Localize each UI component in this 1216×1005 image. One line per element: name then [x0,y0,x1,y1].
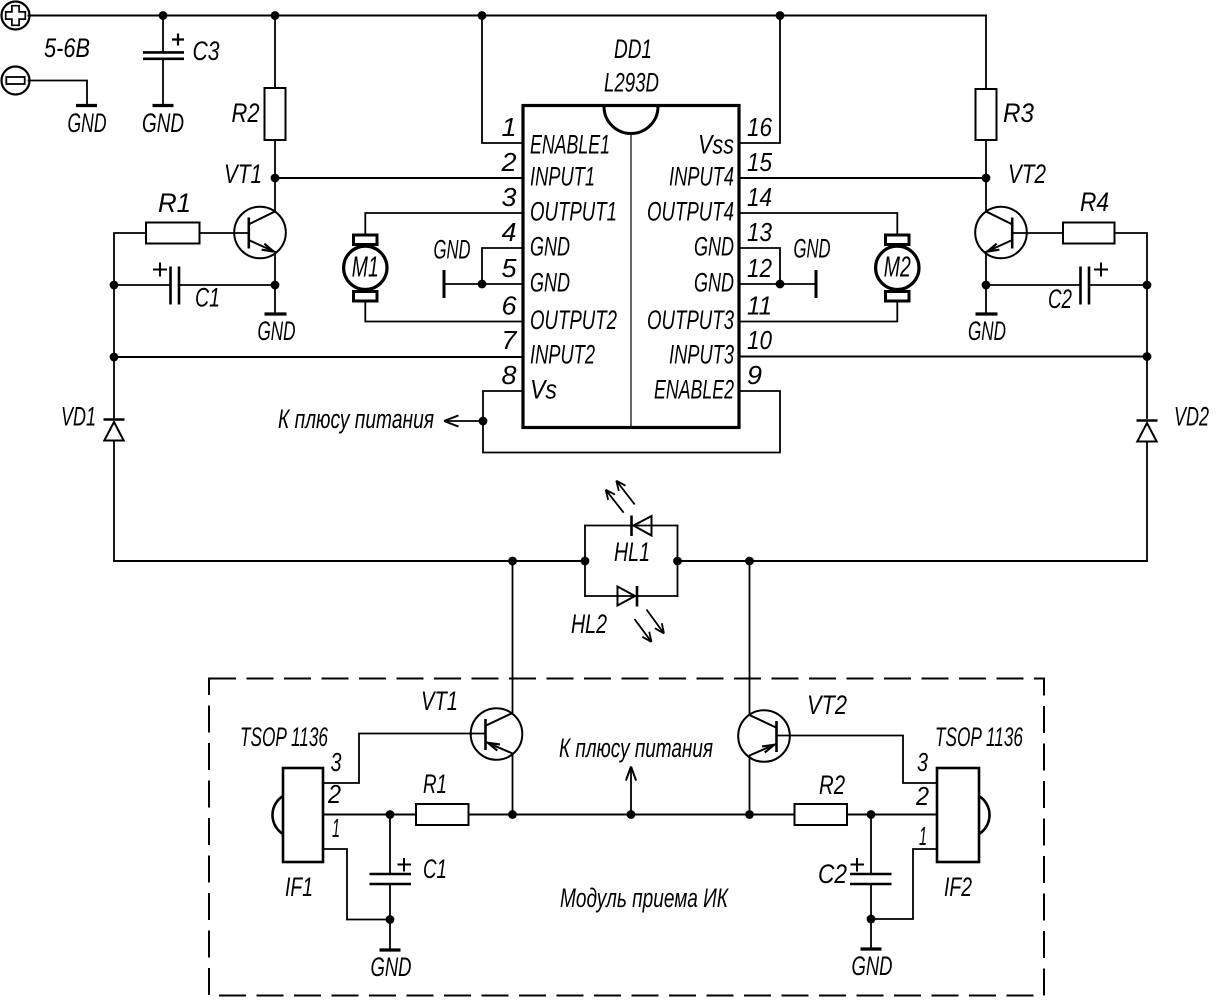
junction: rail / pin16 Vss [776,11,785,20]
svg-text:GND: GND [694,232,734,262]
junction: R2 / pin2 / VT1 collector [271,174,280,183]
svg-text:6: 6 [502,291,518,321]
wire: IF2 pin1 to C2b [871,849,937,919]
svg-text:IF2: IF2 [944,872,972,902]
wire: LED block left side [584,526,586,597]
svg-text:OUTPUT2: OUTPUT2 [530,305,617,335]
wire: VT1 emitter [274,252,276,285]
wire: supply arrow lead [448,420,483,422]
svg-text:VD2: VD2 [1174,402,1209,432]
resistor R3 [976,89,997,140]
wire: C2b bottom [870,885,872,919]
wire: LED block top branch [585,525,678,527]
wire: rail to R2 [274,16,276,89]
diode VD2 [1137,421,1158,442]
svg-text:GND: GND [258,316,296,346]
diode VD1 [104,420,125,441]
wire: bottom-right horizontal to LED block [678,560,1148,562]
svg-text:13: 13 [747,217,772,247]
junction: bottom wire / VT2b collector drop [745,557,754,566]
wire: pin4 GND jumper [482,248,523,284]
svg-text:GND: GND [530,268,570,298]
wire: rail to C3 [162,16,164,52]
wire: C1b top [389,815,391,874]
svg-text:2: 2 [915,781,929,811]
svg-text:1: 1 [919,821,927,851]
IC DD1 notch [604,107,658,134]
wire: C2b top [870,815,872,874]
svg-text:ENABLE2: ENABLE2 [654,375,734,405]
wire: IF1 pin2 to R1 [323,814,416,816]
svg-text:C2: C2 [818,859,847,889]
svg-text:C1: C1 [195,283,220,313]
capacitor C3 [143,34,184,59]
svg-text:10: 10 [747,325,772,355]
svg-text:2: 2 [500,147,517,177]
wire: right bus C2 to pin10 [1146,285,1148,357]
junction: C2b / IF2 pin1 [867,915,876,924]
svg-text:8: 8 [502,360,518,390]
wire: VT2 base to R4 [1012,232,1063,234]
wire: pin14 OUTPUT4 to M2 top [739,213,897,235]
wire: C1 left plate [114,284,170,286]
wire: VT1 collector [274,178,276,212]
svg-text:GND: GND [68,108,107,138]
svg-text:C2: C2 [1048,284,1072,314]
ground (VT1 emitter) [265,312,287,315]
arrow to plus supply (top) [444,415,458,426]
svg-text:VD1: VD1 [61,402,96,432]
wire: VT2 emitter to ground [985,285,987,313]
ground tick (pins 4,5) [443,270,446,298]
svg-text:IF1: IF1 [285,872,313,902]
wire: C1 right plate to VT1 emitter [180,284,276,286]
svg-text:TSOP 1136: TSOP 1136 [935,722,1024,752]
capacitor C1 (module) [370,858,412,884]
wire: LED node down to VT2b collector [749,561,751,715]
junction: R3 / pin15 / VT2 collector [982,174,991,183]
power terminal +5-6V (plus) [2,2,30,30]
resistor R2 [265,88,286,140]
wire: pin12 GND to tick [739,283,816,285]
svg-text:Модуль приема ИК: Модуль приема ИК [560,883,729,913]
svg-text:OUTPUT4: OUTPUT4 [647,197,734,227]
wire: IF1 pin1 to C1b [323,849,390,920]
wire: pin8 Vs - pin9 ENABLE2 loop [483,391,780,453]
wire: VT2b emitter [749,756,751,815]
resistor R1 (module) [416,804,469,825]
wire: left bus to VD1 [113,357,115,418]
wire: minus terminal to ground [29,81,88,105]
svg-text:DD1: DD1 [614,34,652,64]
svg-text:OUTPUT3: OUTPUT3 [647,305,734,335]
svg-text:11: 11 [747,291,772,321]
svg-text:R2: R2 [819,770,845,800]
wire: DD1 pin 7 INPUT2 [114,356,523,358]
capacitor C1 (top) [153,263,179,305]
wire: DD1 pin 16 Vss to rail [739,16,780,144]
svg-text:VT2: VT2 [1008,159,1046,189]
wire: R2b to IF2 pin2 [847,814,937,816]
arrow to plus supply (module) [626,767,636,781]
svg-text:К плюсу питания: К плюсу питания [559,733,713,763]
svg-text:GND: GND [968,316,1006,346]
ground (module left) [380,948,401,951]
ground (minus terminal) [76,104,97,107]
svg-text:14: 14 [747,182,772,212]
wire: VD2 anode down [1146,442,1148,562]
wire: R3 to VT2 collector node [985,140,987,178]
svg-text:GND: GND [694,268,734,298]
svg-text:C1: C1 [423,854,447,884]
svg-text:15: 15 [747,147,772,177]
junction: left bus / C1 [110,281,119,290]
junction: C2b / IF2 pin2 [867,810,876,819]
junction: left bus / pin7 INPUT2 [110,353,119,362]
svg-text:12: 12 [747,253,772,283]
wire: pin5 GND to tick [444,283,523,285]
wire: R4 to right bus [1115,233,1148,285]
junction: C1b / IF1 pin1 [386,915,395,924]
node: LED block right [673,557,682,566]
transistor VT1 (top, NPN) [234,207,286,259]
LED HL2 (points right) [618,586,665,642]
wire: R1 left to vertical bus [114,233,146,285]
svg-text:VT1: VT1 [224,159,262,189]
svg-text:INPUT3: INPUT3 [669,340,734,370]
wire: module supply rail [469,814,795,816]
junction: VT1b emitter / R1 output [508,810,517,819]
svg-text:GND: GND [794,234,831,264]
svg-text:3: 3 [917,747,928,777]
svg-text:3: 3 [502,182,518,212]
junction: VT2b emitter / module rail [745,810,754,819]
motor M2 [876,235,919,301]
transistor VT2 (top, NPN, mirrored) [975,207,1027,259]
svg-text:HL1: HL1 [614,537,650,567]
svg-text:GND: GND [852,951,893,981]
wire: R1 to VT1 base [200,232,249,234]
junction: IF1 pin2 / C1 [386,810,395,819]
svg-text:VT2: VT2 [807,690,847,720]
wire: rail corner to R3 [985,16,987,90]
svg-text:GND: GND [434,235,471,265]
IC DD1 divider [630,134,632,426]
svg-text:GND: GND [530,232,570,262]
transistor VT2 (module, PNP, mirrored) [738,710,790,762]
svg-text:1: 1 [502,112,517,142]
power terminal minus [2,67,30,95]
wire: C3 to ground [162,60,164,104]
junction: rail / pin1 [478,11,487,20]
junction: pin4/pin5 [478,280,487,289]
ground tick (pins 13,12) [815,270,818,298]
ground (VT2 emitter) [976,312,998,315]
wire: VT1b emitter [512,754,514,815]
capacitor C2 (module) [850,858,892,884]
wire: pin13 GND jumper [739,248,780,284]
ground (C3) [153,104,174,107]
motor M1 [344,235,387,301]
wire: C2b to ground [870,919,872,948]
wire: node to DD1 pin 2 INPUT1 [275,177,523,179]
svg-text:1: 1 [332,813,340,843]
junction: bottom wire / VT1b collector drop [508,557,517,566]
IR receiver IF2 TSOP1136 [937,768,990,862]
svg-text:9: 9 [747,360,762,390]
resistor R2 (module) [795,804,848,825]
wire: left bus to pin7 [113,285,115,357]
wire: VT2 collector [985,178,987,212]
svg-text:R1: R1 [423,769,447,799]
wire: rail to DD1 pin 1 ENABLE1 [482,16,523,144]
wire: module supply arrow [630,770,632,815]
svg-text:ENABLE1: ENABLE1 [530,130,610,160]
junction: module rail / supply arrow [627,810,636,819]
LED HL1 (IR receiver-facing, points left) [606,481,652,536]
wire: VT2 emitter [985,252,987,285]
wire: LED block right side [677,526,679,597]
svg-text:16: 16 [747,112,772,142]
ground (module right) [861,947,882,950]
svg-text:M2: M2 [884,252,911,284]
wire: VT2 emitter to C2 [986,284,1080,286]
svg-text:VT1: VT1 [421,686,458,716]
svg-text:2: 2 [327,779,341,809]
junction: VT1 emitter / C1 / GND [271,281,280,290]
wire: C2 to right bus [1090,284,1148,286]
capacitor C2 (top) [1081,263,1109,305]
svg-text:Vss: Vss [698,130,734,160]
wire: C1b to ground [389,920,391,949]
wire: R2 to VT1 collector node [274,140,276,178]
wire: right bus to VD2 [1146,357,1148,419]
resistor R4 [1063,223,1115,244]
junction: Vs loop / supply arrow [479,417,488,426]
svg-text:TSOP 1136: TSOP 1136 [240,722,329,752]
svg-text:INPUT2: INPUT2 [530,340,595,370]
svg-text:Vs: Vs [530,375,557,405]
junction: right bus / pin10 INPUT3 [1143,352,1152,361]
IC DD1 L293D body [523,106,739,428]
wire: VT2b base to IF2 pin3 [777,736,938,784]
wire: VD1 anode down-left bus [113,441,115,562]
wire: C1b bottom [389,885,391,920]
svg-text:M1: M1 [352,252,379,284]
junction: VT2 emitter / C2 / GND [982,281,991,290]
svg-text:R4: R4 [1080,187,1109,217]
svg-text:К плюсу питания: К плюсу питания [278,404,434,434]
wire: bottom-left horizontal to LED block [114,560,585,562]
wire: LED node down to VT1b collector [512,561,514,714]
wire: M1 top to pin3 OUTPUT1 [365,213,523,235]
svg-text:5-6В: 5-6В [44,33,90,63]
svg-text:C3: C3 [193,36,220,66]
wire: VT1b base to IF1 pin3 [323,734,486,784]
svg-text:OUTPUT1: OUTPUT1 [530,197,617,227]
svg-text:5: 5 [502,253,518,283]
svg-text:INPUT1: INPUT1 [530,162,595,192]
svg-text:L293D: L293D [604,68,659,98]
node: LED block left [581,557,590,566]
wire: M1 bottom to pin6 OUTPUT2 [365,301,523,322]
wire: VT1 emitter to ground [274,285,276,313]
svg-text:GND: GND [142,108,184,138]
junction: pin13/pin12 [776,280,785,289]
wire: pin11 OUTPUT3 to M2 bottom [739,301,897,322]
svg-text:HL2: HL2 [571,609,607,639]
module box (Модуль приема ИК) [209,679,1044,996]
wire: +5-6V top rail [29,15,987,17]
svg-text:INPUT4: INPUT4 [669,162,734,192]
wire: DD1 pin 15 INPUT4 to node [739,177,986,179]
junction: rail / C3 [159,11,168,20]
wire: DD1 pin 10 INPUT3 to right bus [739,356,1147,358]
wire: LED block bottom branch [585,595,678,597]
svg-text:R1: R1 [158,188,191,218]
svg-text:7: 7 [502,325,519,355]
junction: rail / R2 [271,11,280,20]
svg-text:GND: GND [371,952,412,982]
svg-text:R2: R2 [232,98,260,128]
resistor R1 (top) [146,223,200,244]
junction: right bus / C2 [1143,281,1152,290]
svg-text:4: 4 [502,217,517,247]
svg-text:R3: R3 [1003,98,1034,128]
transistor VT1 (module, PNP) [471,708,523,760]
svg-text:3: 3 [331,747,342,777]
IR receiver IF1 TSOP1136 [272,768,323,862]
